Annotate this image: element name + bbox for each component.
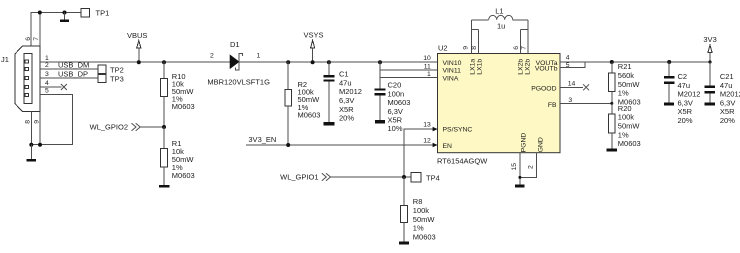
capacitor C21	[709, 62, 711, 85]
svg-text:100n: 100n	[388, 89, 405, 98]
wire pin9	[39, 112, 41, 145]
inductor L1 pins 9/8	[470, 20, 472, 54]
svg-text:2: 2	[45, 62, 49, 69]
resistor R20	[611, 103, 613, 114]
wire diode cathode to VIN rail	[239, 61, 438, 63]
svg-text:C1: C1	[339, 70, 349, 79]
svg-text:1%: 1%	[413, 224, 424, 233]
svg-text:4: 4	[566, 55, 570, 62]
svg-text:VOUTb: VOUTb	[535, 65, 558, 72]
svg-text:R20: R20	[618, 104, 632, 113]
wire VOUTa rail	[560, 61, 710, 63]
svg-text:11: 11	[424, 63, 431, 70]
svg-text:1: 1	[45, 55, 49, 62]
inductor L1 pins 6/7	[520, 29, 522, 53]
svg-text:560k: 560k	[618, 71, 635, 80]
svg-text:6,3V: 6,3V	[678, 98, 693, 107]
ground (R20)	[607, 148, 617, 151]
test point TP4	[411, 172, 421, 182]
svg-text:1%: 1%	[618, 89, 629, 98]
junction ground tap	[63, 11, 67, 15]
svg-text:5: 5	[45, 88, 49, 95]
wire PGOOD stub	[560, 86, 583, 88]
svg-text:VIN11: VIN11	[443, 68, 462, 75]
svg-text:6: 6	[25, 37, 32, 41]
svg-text:PS/SYNC: PS/SYNC	[443, 127, 473, 134]
svg-text:TP1: TP1	[96, 9, 110, 18]
svg-text:R21: R21	[618, 62, 632, 71]
test point TP1	[81, 8, 90, 17]
svg-text:10%: 10%	[388, 124, 403, 133]
svg-text:3V3_EN: 3V3_EN	[248, 135, 276, 144]
svg-text:PGND: PGND	[521, 133, 528, 153]
svg-text:VSYS: VSYS	[304, 31, 324, 40]
svg-text:8: 8	[471, 46, 478, 50]
inductor L1	[471, 19, 488, 21]
svg-text:6: 6	[513, 46, 520, 50]
wire pin2 USB_DM	[40, 68, 98, 70]
svg-text:20%: 20%	[339, 114, 354, 123]
svg-text:TP2: TP2	[110, 65, 124, 74]
svg-text:M0603: M0603	[413, 232, 436, 241]
svg-text:15: 15	[511, 163, 518, 171]
wire pin8	[30, 112, 32, 145]
pin arrow PS/SYNC	[433, 127, 438, 132]
svg-text:47u: 47u	[339, 78, 352, 87]
wire VOUTb jog	[560, 62, 585, 67]
svg-text:47u: 47u	[678, 81, 691, 90]
wire VIN11	[380, 62, 438, 70]
test point TP3	[98, 74, 106, 82]
svg-text:M2012: M2012	[678, 90, 701, 99]
svg-text:X5R: X5R	[339, 105, 354, 114]
op IC U2 RT6154AGQW	[438, 54, 561, 153]
svg-text:X5R: X5R	[388, 116, 403, 125]
ground (U2)	[515, 185, 525, 188]
wire PS/SYNC	[404, 129, 438, 177]
svg-text:20%: 20%	[678, 116, 693, 125]
svg-text:4: 4	[45, 80, 49, 87]
connector J1	[15, 46, 40, 112]
svg-text:14: 14	[568, 81, 576, 88]
ground (C1)	[324, 122, 335, 125]
svg-text:1u: 1u	[497, 22, 505, 31]
no-connect X PGOOD	[583, 84, 589, 90]
ground (C20)	[375, 120, 385, 123]
wire pin1 / VBUS rail to diode	[40, 61, 230, 63]
svg-text:J1: J1	[1, 55, 9, 64]
svg-text:C21: C21	[720, 72, 734, 81]
svg-text:USB_DP: USB_DP	[58, 70, 88, 79]
svg-text:C20: C20	[388, 81, 402, 90]
ground (R1)	[159, 185, 169, 188]
svg-text:R8: R8	[413, 197, 423, 206]
pin arrow EN	[433, 143, 438, 148]
capacitor C1	[327, 60, 331, 64]
svg-text:2: 2	[528, 165, 535, 169]
wire TP1/shield top	[31, 13, 81, 47]
resistor R2	[286, 60, 290, 64]
svg-text:7: 7	[521, 46, 528, 50]
svg-text:3V3: 3V3	[703, 35, 716, 44]
resistor R21	[610, 60, 614, 64]
wire VINA	[380, 70, 438, 78]
wire pin3 USB_DP	[40, 77, 98, 79]
capacitor C20	[379, 78, 381, 89]
wire pin4 stub	[40, 86, 62, 88]
capacitor C2	[667, 60, 671, 64]
resistor R1	[163, 127, 165, 149]
svg-text:3: 3	[45, 71, 49, 78]
svg-text:C2: C2	[678, 72, 688, 81]
junction pin7	[38, 11, 42, 15]
svg-text:6,3V: 6,3V	[720, 98, 735, 107]
svg-text:50mW: 50mW	[618, 122, 641, 131]
svg-text:WL_GPIO1: WL_GPIO1	[280, 173, 318, 182]
svg-text:EN: EN	[443, 143, 453, 150]
svg-text:M2012: M2012	[720, 90, 740, 99]
svg-text:9: 9	[462, 46, 469, 50]
svg-text:6,3V: 6,3V	[388, 107, 403, 116]
svg-text:1: 1	[257, 53, 261, 60]
svg-text:VINA: VINA	[443, 75, 459, 82]
svg-text:TP4: TP4	[426, 174, 440, 183]
wire PGND	[519, 153, 521, 185]
wire pin7 to shield	[39, 13, 41, 47]
svg-text:LX2b: LX2b	[517, 59, 524, 75]
svg-text:M0603: M0603	[618, 139, 641, 148]
ground (top)	[64, 13, 66, 20]
svg-text:USB_DM: USB_DM	[58, 61, 89, 70]
svg-text:3: 3	[568, 97, 572, 104]
svg-text:GND: GND	[538, 137, 545, 152]
svg-text:L1: L1	[495, 7, 503, 16]
svg-text:X5R: X5R	[720, 107, 735, 116]
svg-text:1: 1	[427, 71, 431, 78]
svg-text:TP3: TP3	[110, 74, 124, 83]
svg-text:1%: 1%	[618, 130, 629, 139]
svg-text:X5R: X5R	[678, 107, 693, 116]
svg-text:10: 10	[423, 55, 431, 62]
junction shield gnd	[29, 143, 33, 147]
svg-text:VBUS: VBUS	[127, 31, 147, 40]
svg-text:12: 12	[423, 137, 431, 144]
svg-text:LX1a: LX1a	[469, 59, 476, 75]
resistor R8	[403, 177, 405, 205]
svg-text:2: 2	[210, 52, 214, 59]
svg-text:RT6154AGQW: RT6154AGQW	[437, 156, 488, 165]
svg-text:M0603: M0603	[388, 98, 411, 107]
svg-text:LX2b: LX2b	[525, 59, 532, 75]
svg-text:M0603: M0603	[172, 171, 195, 180]
svg-text:U2: U2	[438, 43, 448, 52]
svg-text:50mW: 50mW	[413, 215, 436, 224]
ground (R8)	[399, 242, 409, 245]
svg-text:13: 13	[423, 121, 431, 128]
svg-text:M0603: M0603	[298, 110, 321, 119]
ground (C21)	[705, 102, 715, 105]
svg-text:8: 8	[25, 120, 32, 124]
ground (C2)	[664, 102, 674, 105]
resistor R10	[162, 60, 166, 64]
junction VIN branch	[378, 60, 382, 64]
svg-text:VIN10: VIN10	[443, 60, 462, 67]
wire pin5 shield loop	[31, 95, 72, 145]
svg-text:MBR120VLSFT1G: MBR120VLSFT1G	[207, 77, 270, 86]
svg-text:47u: 47u	[720, 81, 733, 90]
wire GND	[520, 153, 537, 178]
no-connect X pin4	[61, 84, 67, 90]
svg-text:WL_GPIO2: WL_GPIO2	[90, 123, 128, 132]
svg-text:M0603: M0603	[172, 102, 195, 111]
ground (USB)	[30, 145, 32, 159]
svg-text:9: 9	[33, 120, 40, 124]
test point TP2	[98, 65, 106, 73]
svg-text:D1: D1	[230, 40, 240, 49]
svg-text:5: 5	[566, 62, 570, 69]
svg-text:100k: 100k	[413, 206, 430, 215]
svg-text:LX1b: LX1b	[476, 59, 483, 75]
svg-text:100k: 100k	[618, 113, 635, 122]
svg-text:PGOOD: PGOOD	[531, 86, 556, 93]
svg-text:20%: 20%	[720, 116, 735, 125]
svg-text:6,3V: 6,3V	[339, 96, 354, 105]
svg-text:7: 7	[33, 37, 40, 41]
wire FB	[560, 102, 612, 104]
svg-text:M2012: M2012	[339, 87, 362, 96]
svg-text:50mW: 50mW	[618, 80, 641, 89]
svg-text:FB: FB	[548, 102, 557, 109]
